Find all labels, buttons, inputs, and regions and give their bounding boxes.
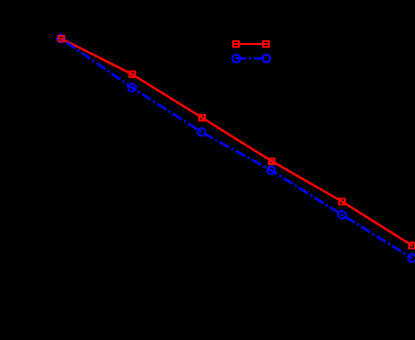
red square marker point 3: [199, 115, 205, 121]
blue circle marker point 4: [267, 167, 275, 175]
red solid series line: [61, 39, 412, 246]
red square marker point 4: [269, 158, 275, 164]
blue circle marker point 2: [128, 84, 136, 92]
red square marker point 1: [59, 36, 65, 42]
blue circle marker point 6: [408, 254, 415, 262]
blue circle marker point 3: [198, 128, 206, 136]
legend entry 1: red solid line with square markers: [233, 41, 269, 47]
legend entry 2: blue dash-dot line with circle markers: [232, 55, 270, 63]
red square marker point 5: [339, 199, 345, 205]
red square marker point 2: [130, 72, 136, 78]
blue circle marker point 5: [338, 211, 346, 219]
red square marker point 6: [409, 243, 415, 249]
blue circle marker point 1: [57, 35, 65, 43]
blue dash-dot series line: [61, 39, 412, 259]
